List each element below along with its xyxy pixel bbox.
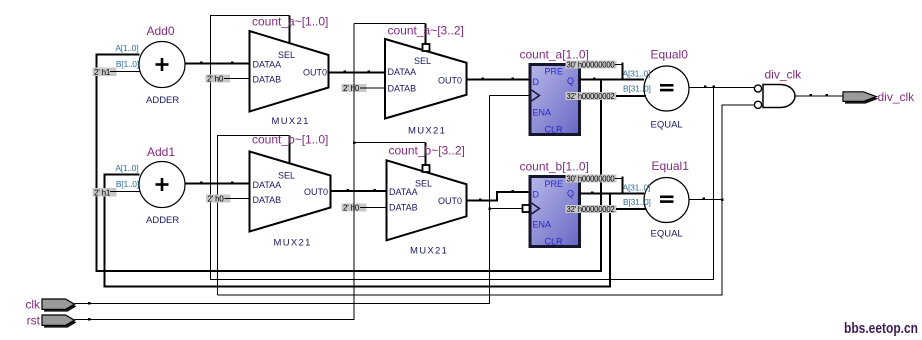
SEL connector square on Mux4: [423, 165, 430, 172]
constant 2'h1 into Add0.B: [93, 68, 141, 78]
net count_a feedback (bus): [97, 55, 602, 272]
clock triangle of count_b: [532, 203, 540, 214]
wire clk net (pin to both register clocks): [75, 96, 490, 305]
svg-text:clk: clk: [25, 298, 41, 312]
svg-text:OUT0: OUT0: [438, 76, 462, 86]
net count_b feedback (bus): [105, 175, 611, 287]
svg-text:MUX21: MUX21: [274, 238, 312, 249]
svg-text:Equal1: Equal1: [652, 159, 690, 173]
svg-text:DATAA: DATAA: [253, 60, 282, 70]
svg-text:ADDER: ADDER: [146, 95, 179, 106]
svg-text:B[31..0]: B[31..0]: [623, 197, 651, 207]
svg-text:OUT0: OUT0: [438, 196, 462, 206]
wire Mux3.OUT0 to Mux4.DATAA: [331, 189, 387, 192]
wire Equal0 output to NAND input 1: [689, 86, 755, 89]
svg-text:32' h00000002: 32' h00000002: [567, 205, 616, 214]
constant 32'h00000002 into Equal1.B: [566, 205, 647, 214]
adder Add0: [139, 24, 185, 106]
constant 2'h0 into Mux1.DATAB: [206, 75, 250, 84]
svg-text:2' h0: 2' h0: [208, 195, 225, 204]
svg-text:DATAA: DATAA: [388, 67, 417, 77]
wire Equal1 output feedback to Mux3 SEL (node count_b~[1..0] select): [218, 136, 290, 296]
svg-text:D: D: [533, 77, 540, 87]
svg-text:2' h0: 2' h0: [207, 75, 224, 84]
wire gate output to pin div_clk: [795, 94, 843, 97]
mux U:count_b~[3..2] MUX21: [387, 144, 467, 257]
wire Mux4.OUT0 to count_b.D (jog): [467, 190, 531, 201]
wire Equal1 output up to NAND input 2: [218, 105, 755, 295]
input pin rst: [27, 314, 77, 328]
wire clk to count_a clock: [490, 95, 532, 97]
svg-text:DATAA: DATAA: [389, 187, 418, 197]
svg-text:div_clk: div_clk: [878, 90, 916, 104]
svg-text:Q: Q: [567, 76, 574, 86]
svg-text:Add1: Add1: [147, 145, 175, 159]
wire Mux2.OUT0 to count_a.D: [467, 78, 531, 81]
svg-text:CLR: CLR: [545, 237, 564, 247]
svg-text:D: D: [533, 190, 540, 200]
adder Add1: [139, 145, 185, 226]
svg-text:DATAB: DATAB: [253, 195, 282, 205]
svg-text:count_a[1..0]: count_a[1..0]: [520, 48, 589, 62]
svg-text:PRE: PRE: [545, 67, 564, 77]
svg-text:B[31..0]: B[31..0]: [623, 84, 651, 94]
wire Equal1 output to feedback vertical: [689, 198, 722, 201]
svg-text:MUX21: MUX21: [272, 116, 310, 127]
gate div_clk (AND with inverted inputs): [754, 68, 802, 109]
wire rst to Mux4 SEL: [353, 141, 426, 166]
svg-text:count_a~[1..0]: count_a~[1..0]: [252, 15, 328, 29]
comparator Equal1: [644, 159, 689, 240]
svg-text:CLR: CLR: [545, 125, 564, 135]
svg-text:div_clk: div_clk: [765, 68, 803, 82]
wire Mux1.OUT0 to Mux2.DATAA: [329, 71, 386, 74]
svg-text:B[1..0]: B[1..0]: [116, 59, 139, 69]
constant 2'h1 into Add1.B: [93, 188, 141, 198]
constant 30'h00000000 joining Equal0.A: [566, 61, 623, 80]
svg-text:count_b~[3..2]: count_b~[3..2]: [389, 144, 465, 158]
svg-text:SEL: SEL: [278, 171, 295, 181]
wire Add0.OUT to Mux1.DATAA: [185, 62, 250, 65]
SEL connector square on Mux2: [423, 44, 430, 51]
wire rst to Mux2 SEL: [354, 24, 426, 46]
register count_b[1..0]: [520, 160, 589, 247]
svg-text:count_b[1..0]: count_b[1..0]: [520, 160, 589, 174]
svg-text:bbs.eetop.cn: bbs.eetop.cn: [844, 320, 918, 337]
wire clk to count_b clock: [488, 207, 523, 210]
svg-text:ENA: ENA: [533, 108, 552, 118]
mux U:count_a~[1..0] MUX21: [250, 15, 329, 128]
register count_a[1..0]: [520, 48, 589, 135]
svg-text:32' h00000002: 32' h00000002: [567, 92, 616, 101]
svg-text:SEL: SEL: [414, 56, 431, 66]
svg-text:DATAA: DATAA: [253, 180, 282, 190]
svg-text:A[31..0]: A[31..0]: [623, 69, 651, 79]
wire count_b.Q to Equal1.A: [579, 192, 644, 195]
clock connector square of count_b: [523, 205, 530, 212]
input pin clk: [25, 298, 76, 312]
constant 30'h00000000 joining Equal1.A: [566, 175, 623, 194]
output pin div_clk: [843, 90, 915, 104]
svg-text:Add0: Add0: [147, 24, 175, 38]
wire Add1.OUT to Mux3.DATAA: [185, 182, 250, 185]
svg-text:EQUAL: EQUAL: [651, 120, 683, 131]
constant 2'h0 into Mux4.DATAB: [342, 204, 387, 213]
svg-text:B[1..0]: B[1..0]: [116, 179, 139, 189]
mux U:count_b~[1..0] MUX21: [250, 133, 331, 249]
constant 32'h00000002 into Equal0.B: [566, 92, 647, 101]
mux U:count_a~[3..2] MUX21: [385, 24, 467, 137]
svg-text:2' h0: 2' h0: [343, 84, 360, 93]
svg-text:MUX21: MUX21: [410, 246, 448, 257]
svg-text:2' h0: 2' h0: [343, 204, 360, 213]
svg-text:Equal0: Equal0: [651, 48, 689, 62]
svg-text:30' h00000000: 30' h00000000: [567, 175, 616, 184]
svg-text:DATAB: DATAB: [389, 203, 418, 213]
svg-text:OUT0: OUT0: [303, 68, 327, 78]
svg-text:DATAB: DATAB: [388, 84, 417, 94]
svg-text:A[1..0]: A[1..0]: [115, 163, 138, 173]
svg-text:MUX21: MUX21: [408, 126, 446, 137]
svg-text:ADDER: ADDER: [146, 215, 179, 226]
wire rst net (pin to Mux2/Mux4 SEL vertical): [75, 24, 355, 321]
svg-text:EQUAL: EQUAL: [651, 229, 683, 240]
wire count_a: Q down at x=601, bottom bus y=271, up x=96.5, into Add0.A: [97, 55, 602, 272]
wire count_b: Q down at x=610, bottom bus y=286.5, up x=104.5, into Add1.A: [105, 175, 611, 287]
svg-text:OUT0: OUT0: [304, 187, 328, 197]
wire count_a.Q to Equal0.A: [579, 78, 644, 81]
clock triangle of count_a: [532, 90, 540, 101]
svg-text:count_b~[1..0]: count_b~[1..0]: [252, 133, 328, 147]
constant 2'h0 into Mux3.DATAB: [206, 195, 250, 204]
svg-text:2' h1: 2' h1: [94, 189, 111, 198]
svg-text:ENA: ENA: [533, 220, 552, 230]
svg-text:2' h1: 2' h1: [94, 68, 111, 77]
svg-text:rst: rst: [27, 314, 41, 328]
svg-text:DATAB: DATAB: [253, 75, 282, 85]
wire Equal0 output feedback to Mux1 SEL (node count_a~[1..0] select): [211, 16, 714, 280]
svg-text:count_a~[3..2]: count_a~[3..2]: [388, 24, 464, 38]
svg-text:A[31..0]: A[31..0]: [623, 183, 651, 193]
comparator Equal0: [644, 48, 689, 131]
svg-text:30' h00000000: 30' h00000000: [567, 61, 616, 70]
svg-text:A[1..0]: A[1..0]: [115, 43, 138, 53]
svg-text:PRE: PRE: [545, 179, 564, 189]
svg-text:Q: Q: [567, 189, 574, 199]
constant 2'h0 into Mux2.DATAB: [342, 84, 386, 93]
svg-text:SEL: SEL: [278, 50, 295, 60]
